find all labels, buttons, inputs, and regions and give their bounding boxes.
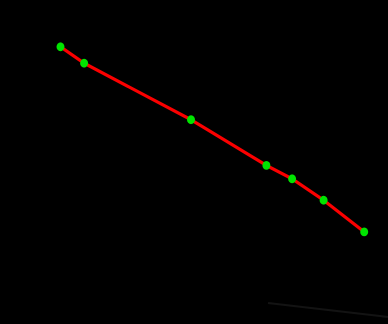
data point 6: [320, 196, 328, 205]
data point 5: [288, 174, 296, 183]
faint dark streak bottom right: [268, 303, 388, 317]
data point 1: [57, 42, 65, 51]
red data line: [61, 47, 365, 232]
data point 7: [360, 228, 368, 237]
data point 3: [187, 115, 195, 124]
data point 2: [80, 59, 88, 68]
data point 4: [262, 161, 270, 170]
